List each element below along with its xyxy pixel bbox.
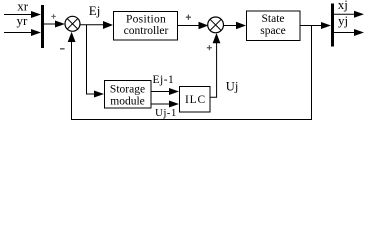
- plus sign at summing junction S1: [51, 14, 56, 19]
- svg-text:controller: controller: [124, 25, 169, 37]
- wire S2 to state space: [224, 25, 239, 27]
- input junction bar: [41, 5, 44, 48]
- wire xr input: [4, 14, 33, 16]
- svg-text:Ej: Ej: [89, 3, 101, 18]
- summing junction S2: [208, 17, 224, 33]
- svg-text:yr: yr: [17, 13, 29, 28]
- wire state space to output bar: [300, 25, 323, 27]
- block Storage module: [105, 81, 152, 109]
- svg-text:State: State: [262, 13, 285, 25]
- svg-text:xj: xj: [338, 0, 348, 12]
- wire position controller to S2: [178, 25, 201, 27]
- wire node Ej to storage module: [87, 25, 97, 94]
- wire S1 to position controller: [80, 24, 106, 26]
- block Position controller: [114, 12, 178, 41]
- wire storage Ej-1 to ILC: [151, 91, 171, 93]
- summing junction S1: [65, 16, 80, 31]
- wire ILC to S2: [210, 42, 217, 97]
- plus sign at S2 bottom: [207, 45, 212, 50]
- wire xj output: [334, 13, 355, 15]
- wire feedback loop from output node to S1: [72, 26, 312, 120]
- wire yj output: [334, 32, 355, 34]
- svg-text:yj: yj: [338, 13, 348, 28]
- svg-text:space: space: [260, 25, 286, 37]
- wire yr input: [4, 32, 33, 34]
- svg-text:Uj: Uj: [226, 80, 239, 94]
- output junction bar: [331, 4, 334, 47]
- svg-text:Ej-1: Ej-1: [153, 74, 175, 86]
- svg-text:Storage: Storage: [110, 84, 145, 96]
- wire bar to S1: [44, 23, 57, 25]
- svg-text:Uj-1: Uj-1: [155, 107, 177, 119]
- block ILC: [180, 87, 211, 113]
- svg-text:ILC: ILC: [185, 94, 206, 106]
- svg-text:xr: xr: [17, 0, 29, 14]
- block State space: [247, 11, 301, 41]
- plus sign before S2: [186, 15, 191, 20]
- svg-text:module: module: [110, 96, 145, 108]
- wire storage Uj-1 to ILC: [151, 103, 171, 105]
- minus sign at S1: [60, 48, 65, 50]
- svg-text:Position: Position: [126, 13, 166, 25]
